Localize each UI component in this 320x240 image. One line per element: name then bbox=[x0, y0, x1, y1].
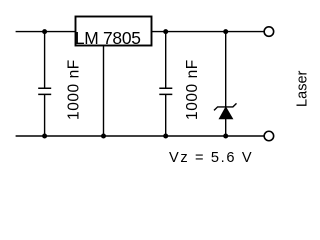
zener diode D1 bbox=[214, 103, 237, 119]
capacitor C1 bbox=[38, 88, 51, 94]
junction bottom rail / U1 ground bbox=[101, 134, 106, 139]
wire C2 lower lead bbox=[165, 94, 167, 136]
svg-text:Laser: Laser bbox=[294, 70, 310, 106]
svg-text:1000 nF: 1000 nF bbox=[65, 59, 82, 120]
wire C1 lower lead bbox=[44, 94, 46, 136]
junction bottom rail / D1 bbox=[223, 134, 228, 139]
wire bottom rail bbox=[16, 135, 264, 137]
svg-text:Vz = 5.6 V: Vz = 5.6 V bbox=[169, 150, 253, 166]
wire top rail right segment bbox=[152, 31, 264, 33]
wire D1 lower lead bbox=[225, 119, 227, 136]
svg-text:1000 nF: 1000 nF bbox=[184, 59, 201, 120]
wire U1 ground lead bbox=[103, 46, 105, 137]
junction top rail / C2 bbox=[163, 29, 168, 34]
wire C2 upper lead bbox=[165, 32, 167, 89]
capacitor C2 bbox=[159, 88, 172, 94]
svg-text:LM 7805: LM 7805 bbox=[75, 28, 141, 48]
terminal negative output bbox=[264, 131, 274, 141]
wire top rail left segment bbox=[16, 31, 76, 33]
junction top rail / C1 bbox=[42, 29, 47, 34]
junction bottom rail / C1 bbox=[42, 134, 47, 139]
terminal positive output bbox=[264, 27, 274, 36]
wire C1 upper lead bbox=[44, 32, 46, 89]
junction bottom rail / C2 bbox=[163, 134, 168, 139]
regulator U1 LM 7805 bbox=[75, 17, 152, 48]
junction top rail / D1 bbox=[223, 29, 228, 34]
wire D1 upper lead bbox=[225, 32, 227, 107]
